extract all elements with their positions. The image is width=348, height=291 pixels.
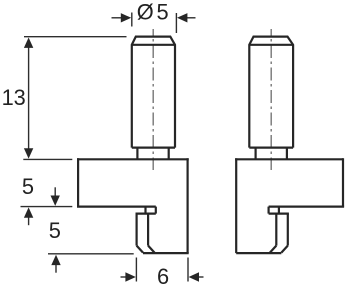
svg-text:13: 13: [2, 85, 26, 110]
svg-text:5: 5: [49, 218, 61, 243]
svg-text:5: 5: [22, 174, 34, 199]
svg-text:Ø: Ø: [137, 0, 154, 24]
svg-text:6: 6: [157, 264, 169, 289]
svg-text:5: 5: [157, 0, 169, 24]
